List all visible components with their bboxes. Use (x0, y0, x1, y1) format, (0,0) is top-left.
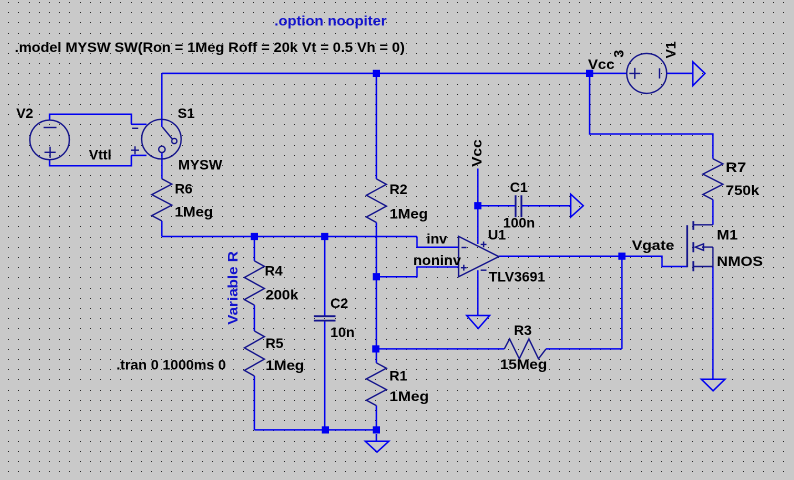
wire S1 bottom lead to R6 (161, 153, 163, 179)
svg-text:TLV3691: TLV3691 (489, 269, 546, 285)
wire R6 bottom lead (161, 221, 163, 237)
ground flag at V1 (693, 62, 705, 86)
switch S1 body (131, 119, 181, 159)
svg-text:750k: 750k (726, 182, 760, 198)
transistor M1 body (687, 221, 713, 271)
ground flag below M1 source (701, 379, 725, 391)
wire R3 right (546, 348, 622, 350)
wire C1 left (478, 205, 516, 207)
wire bottom rail (254, 429, 376, 431)
wire Vgate down to R3 (621, 256, 623, 349)
wire switch top lead (161, 73, 163, 127)
capacitor C1 body (516, 195, 522, 217)
svg-text:R7: R7 (726, 159, 747, 175)
wire C1 right to ground flag (521, 205, 570, 207)
wire R1 bottom to rail (375, 406, 377, 430)
junction node Vgate at R3 branch (618, 253, 625, 260)
svg-text:3: 3 (611, 50, 627, 58)
wire V1 to ground flag (667, 72, 693, 74)
wire mid column R2 to R1 (375, 223, 377, 363)
junction node noninv at mid column (373, 273, 380, 280)
svg-text:Vttl: Vttl (89, 146, 112, 162)
wire noninv from mid column (376, 267, 458, 277)
resistor R7 body (703, 159, 723, 200)
svg-text:Vgate: Vgate (632, 237, 675, 253)
svg-text:U1: U1 (488, 226, 506, 242)
wire R3 left (376, 348, 505, 350)
junction node Vcc on top rail (586, 70, 593, 77)
wire S1 plus control stub (131, 154, 146, 156)
svg-text:C1: C1 (510, 179, 528, 195)
resistor R1 body (366, 363, 386, 406)
wire C2 top (324, 237, 326, 317)
op-amp U1 body (459, 236, 499, 276)
svg-text:noninv: noninv (413, 252, 461, 268)
svg-text:1Meg: 1Meg (175, 204, 213, 220)
svg-text:200k: 200k (266, 287, 299, 303)
svg-text:R3: R3 (514, 322, 532, 338)
resistor R5 body (244, 331, 264, 376)
svg-text:1Meg: 1Meg (390, 206, 428, 222)
wire R5 bottom (253, 376, 255, 430)
svg-text:S1: S1 (178, 105, 195, 121)
wire R4 top (253, 237, 255, 261)
junction node Vcc stub at C1 (474, 202, 481, 209)
wire R2 top drop (375, 73, 377, 178)
svg-text:R5: R5 (266, 335, 284, 351)
wire top rail from switch to V1 (162, 72, 627, 74)
junction node bottom rail at ground (373, 426, 380, 433)
wire inv rail (162, 236, 417, 238)
svg-text:M1: M1 (717, 226, 738, 242)
wire opamp output to gate (Vgate net) (499, 256, 687, 266)
ground flag below op-amp (467, 316, 490, 329)
wire S1 minus control stub (131, 123, 146, 125)
svg-text:R6: R6 (175, 181, 193, 197)
wire R7 to M1 drain (712, 200, 714, 225)
svg-text:inv: inv (427, 231, 448, 247)
svg-text:1Meg: 1Meg (266, 357, 305, 373)
wire opamp negative supply to ground (477, 270, 479, 315)
wire inv jog into opamp (417, 237, 459, 248)
ground flag below bottom rail (365, 441, 389, 452)
capacitor C2 body (314, 316, 336, 320)
voltage source V2 body (30, 120, 70, 160)
junction node bottom rail at C2 (322, 426, 329, 433)
svg-text:10n: 10n (330, 324, 354, 340)
resistor R2 body (366, 179, 386, 223)
junction node on top rail at R2 (373, 70, 380, 77)
svg-text:R4: R4 (265, 262, 283, 278)
svg-text:1Meg: 1Meg (389, 388, 429, 404)
wire V2 minus loop bottom (50, 155, 132, 165)
svg-text:R2: R2 (390, 181, 408, 197)
wire M1 source to ground (712, 267, 714, 380)
svg-text:R1: R1 (389, 368, 407, 384)
svg-text:C2: C2 (330, 295, 348, 311)
wire V2 plus loop top (50, 114, 132, 124)
svg-text:.tran 0 1000ms 0: .tran 0 1000ms 0 (116, 356, 226, 372)
wire R4 to R5 (253, 305, 255, 331)
svg-text:V1: V1 (663, 41, 679, 58)
svg-text:.option noopiter: .option noopiter (274, 12, 387, 28)
wire Vcc node to R7 (590, 73, 713, 158)
svg-text:V2: V2 (16, 105, 33, 121)
wire Vcc stub to opamp supply (477, 169, 479, 245)
svg-text:MYSW: MYSW (178, 157, 223, 173)
junction node inv rail at C2 (321, 233, 328, 240)
svg-text:15Meg: 15Meg (500, 356, 547, 372)
ground flag at C1 (571, 194, 584, 217)
svg-text:100n: 100n (503, 215, 535, 231)
wire bottom rail ground stub (375, 434, 377, 441)
svg-text:NMOS: NMOS (717, 253, 763, 269)
junction node inv rail at R4 (251, 233, 258, 240)
voltage source V1 body (627, 53, 667, 93)
svg-text:Vcc: Vcc (469, 139, 485, 167)
resistor R4 body (244, 261, 264, 305)
junction node R3 at mid column (372, 345, 379, 352)
resistor R6 body (152, 179, 172, 221)
resistor R3 body (504, 339, 546, 359)
svg-text:Variable R: Variable R (225, 251, 241, 325)
wire C2 bottom (324, 321, 326, 430)
svg-text:.model MYSW SW(Ron = 1Meg Roff: .model MYSW SW(Ron = 1Meg Roff = 20k Vt … (15, 39, 405, 55)
